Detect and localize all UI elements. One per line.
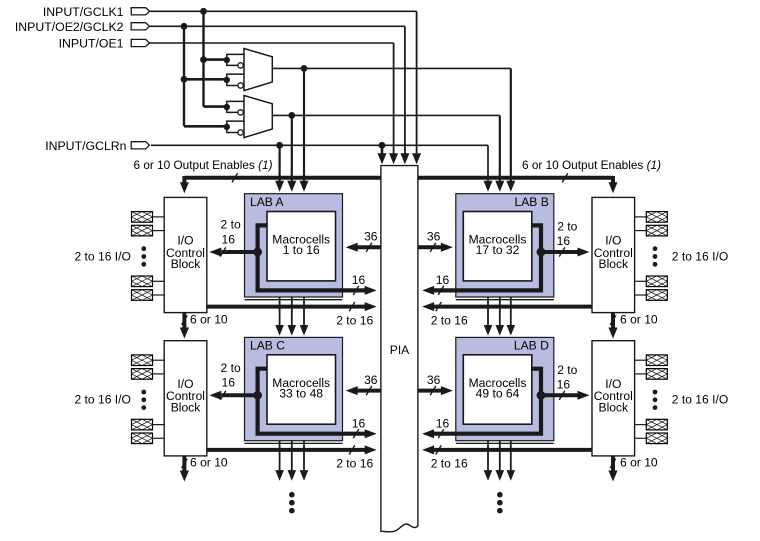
mux M1 input pair 2 bbox=[227, 74, 244, 85]
svg-text:2 to: 2 to bbox=[557, 363, 577, 377]
I/O cell bbox=[646, 355, 667, 366]
wire LAB chain down bbox=[291, 441, 293, 471]
svg-text:LAB D: LAB D bbox=[514, 339, 549, 353]
svg-text:16: 16 bbox=[557, 234, 571, 248]
I/O cell bbox=[132, 212, 153, 223]
I/O cells ellipsis bbox=[653, 390, 658, 395]
node feedback branch bbox=[253, 391, 262, 400]
node GCLRn to PIA bbox=[379, 142, 386, 149]
LAB C bottom edge line bbox=[245, 442, 343, 444]
I/O control block bbox=[592, 197, 635, 312]
wire 2-to-16 to left I/O control block bbox=[222, 393, 258, 397]
I/O cell bbox=[132, 276, 153, 287]
svg-text:INPUT/OE1: INPUT/OE1 bbox=[59, 37, 124, 51]
wire LAB chain down bbox=[487, 297, 489, 326]
svg-text:49 to 64: 49 to 64 bbox=[476, 386, 520, 400]
svg-text:36: 36 bbox=[427, 373, 441, 387]
I/O cell bbox=[646, 419, 667, 430]
wire LAB chain down bbox=[499, 297, 501, 326]
node feedback branch bbox=[537, 391, 546, 400]
thick feedback path LAB D bbox=[432, 369, 541, 434]
svg-text:2 to 16: 2 to 16 bbox=[336, 313, 373, 327]
LAB A bottom edge line bbox=[245, 299, 343, 301]
input pin INPUT/OE2/GCLK2 bbox=[131, 23, 149, 30]
svg-text:36: 36 bbox=[364, 373, 378, 387]
mux M1 input pair 1 bbox=[227, 54, 244, 65]
wire OE2 to muxes bbox=[183, 26, 185, 126]
svg-text:2 to 16 I/O: 2 to 16 I/O bbox=[74, 249, 130, 263]
node feedback branch bbox=[253, 248, 262, 257]
I/O cell bbox=[646, 225, 667, 236]
svg-text:16: 16 bbox=[352, 416, 366, 430]
svg-text:INPUT/GCLK1: INPUT/GCLK1 bbox=[43, 5, 124, 19]
wire mux M1 output bbox=[272, 67, 511, 69]
arrowhead 16 to PIA bbox=[422, 286, 434, 295]
svg-text:INPUT/OE2/GCLK2: INPUT/OE2/GCLK2 bbox=[15, 20, 124, 34]
I/O cell bbox=[132, 369, 153, 380]
thick feedback path LAB A bbox=[258, 225, 367, 290]
svg-text:INPUT/GCLRn: INPUT/GCLRn bbox=[45, 139, 126, 153]
wire LAB chain down bbox=[510, 297, 512, 326]
svg-text:2 to 16 I/O: 2 to 16 I/O bbox=[672, 249, 728, 263]
svg-text:16: 16 bbox=[221, 376, 235, 390]
node mux M2 output to LAB A bbox=[288, 112, 295, 119]
svg-text:Block: Block bbox=[599, 401, 630, 415]
continuation dots left bbox=[289, 492, 295, 498]
slash 16 bbox=[353, 429, 359, 438]
node mux M1 output to LAB A bbox=[301, 65, 308, 72]
wire OE2/GCLK2 to PIA bbox=[149, 25, 405, 27]
mux M1 bbox=[244, 49, 272, 91]
node feedback branch bbox=[537, 248, 546, 257]
svg-text:36: 36 bbox=[364, 230, 378, 244]
wire 6 or 10 bbox=[611, 313, 615, 328]
bus slash right bbox=[562, 173, 568, 182]
input pin INPUT/GCLRn bbox=[131, 142, 149, 149]
svg-text:Block: Block bbox=[171, 401, 202, 415]
wire 2-to-16 to left I/O control block bbox=[222, 250, 258, 254]
thick feedback path LAB C bbox=[258, 369, 367, 434]
mux M2 input pair 1 bbox=[227, 101, 244, 112]
I/O cell bbox=[132, 419, 153, 430]
mux M2 bbox=[244, 96, 272, 138]
wire 2-to-16 right I/O control to PIA bbox=[432, 448, 592, 452]
input pin INPUT/GCLK1 bbox=[131, 8, 149, 15]
svg-text:Block: Block bbox=[599, 257, 630, 271]
node GCLRn to LAB A bbox=[276, 142, 283, 149]
svg-text:6 or 10 Output Enables (1): 6 or 10 Output Enables (1) bbox=[522, 158, 661, 172]
I/O control block bbox=[164, 341, 207, 456]
arrowhead 16 to PIA bbox=[365, 286, 377, 295]
svg-text:6 or 10: 6 or 10 bbox=[190, 456, 228, 470]
svg-text:1 to 16: 1 to 16 bbox=[283, 243, 320, 257]
I/O cell bbox=[132, 290, 153, 301]
wire 36 from PIA to right LAB bbox=[418, 389, 442, 393]
I/O cell bbox=[132, 355, 153, 366]
svg-text:LAB B: LAB B bbox=[515, 195, 549, 209]
wire LAB chain down bbox=[303, 297, 305, 326]
LAB A block bbox=[245, 194, 343, 297]
svg-text:6 or 10: 6 or 10 bbox=[620, 312, 658, 326]
I/O cells ellipsis bbox=[141, 390, 146, 395]
svg-text:16: 16 bbox=[352, 273, 366, 287]
svg-text:2 to 16: 2 to 16 bbox=[336, 457, 373, 471]
continuation dots right bbox=[497, 492, 503, 498]
slash 16 bbox=[438, 429, 444, 438]
wire 2-to-16 left I/O control to PIA bbox=[207, 305, 367, 309]
LAB B bottom edge line bbox=[456, 299, 554, 301]
I/O cell bbox=[646, 290, 667, 301]
macrocells box 1 to 16 bbox=[267, 212, 336, 281]
wire 6 or 10 bbox=[182, 313, 186, 328]
node OE2 branch bbox=[181, 23, 188, 30]
arrowhead 16 to PIA bbox=[422, 429, 434, 438]
svg-text:16: 16 bbox=[221, 232, 235, 246]
LAB D bottom edge line bbox=[456, 442, 554, 444]
LAB B block bbox=[456, 194, 554, 297]
LAB C block bbox=[245, 337, 343, 440]
wire LAB chain down bbox=[279, 297, 281, 326]
node GCLK1 branch bbox=[200, 8, 207, 15]
wire 2-to-16 to right I/O control block bbox=[541, 393, 579, 397]
svg-text:17 to 32: 17 to 32 bbox=[476, 243, 520, 257]
wire 36 from PIA to left LAB bbox=[357, 389, 381, 393]
svg-text:6 or 10 Output Enables (1): 6 or 10 Output Enables (1) bbox=[133, 158, 272, 172]
wire GCLRn bbox=[151, 144, 488, 146]
svg-text:LAB A: LAB A bbox=[250, 195, 285, 209]
input pin INPUT/OE1 bbox=[131, 39, 149, 46]
I/O control block bbox=[592, 341, 635, 456]
wire 36 from PIA to left LAB bbox=[357, 245, 381, 249]
thick feedback path LAB B bbox=[432, 225, 541, 290]
wire OE1 to PIA bbox=[149, 42, 393, 44]
svg-text:PIA: PIA bbox=[390, 343, 410, 357]
svg-text:16: 16 bbox=[557, 377, 571, 391]
I/O cell bbox=[646, 212, 667, 223]
mux M2 input pair 2 bbox=[227, 121, 244, 132]
I/O cells ellipsis bbox=[141, 246, 146, 251]
wire 36 from PIA to right LAB bbox=[418, 245, 442, 249]
svg-text:2 to 16 I/O: 2 to 16 I/O bbox=[74, 393, 130, 407]
LAB D block bbox=[456, 337, 554, 440]
wire LAB chain down bbox=[487, 441, 489, 471]
wire LAB chain down bbox=[303, 441, 305, 471]
wire LAB chain down bbox=[279, 441, 281, 471]
wire GCLK1 to PIA bbox=[149, 10, 416, 12]
I/O cell bbox=[646, 276, 667, 287]
slash 16 bbox=[438, 286, 444, 295]
wire GCLK1 to muxes bbox=[202, 11, 204, 106]
PIA block bbox=[381, 166, 418, 532]
wire 2-to-16 left I/O control to PIA bbox=[207, 448, 367, 452]
svg-text:6 or 10: 6 or 10 bbox=[190, 312, 228, 326]
I/O cells ellipsis bbox=[653, 246, 658, 251]
svg-text:16: 16 bbox=[436, 273, 450, 287]
svg-text:2 to 16 I/O: 2 to 16 I/O bbox=[672, 393, 728, 407]
macrocells box 17 to 32 bbox=[463, 212, 532, 281]
svg-text:2 to: 2 to bbox=[221, 218, 241, 232]
macrocells box 33 to 48 bbox=[267, 355, 336, 424]
arrowhead 16 to PIA bbox=[365, 429, 377, 438]
svg-text:36: 36 bbox=[427, 230, 441, 244]
svg-text:33 to 48: 33 to 48 bbox=[279, 386, 323, 400]
svg-text:6 or 10: 6 or 10 bbox=[620, 456, 658, 470]
wire LAB chain down bbox=[499, 441, 501, 471]
I/O cell bbox=[646, 369, 667, 380]
svg-text:2 to 16: 2 to 16 bbox=[431, 457, 468, 471]
slash 16 bbox=[353, 286, 359, 295]
svg-text:2 to: 2 to bbox=[221, 361, 241, 375]
I/O control block bbox=[164, 197, 207, 312]
wire 2-to-16 right I/O control to PIA bbox=[432, 305, 592, 309]
macrocells box 49 to 64 bbox=[463, 355, 532, 424]
bus slash left bbox=[232, 173, 238, 182]
wire mux M2 output bbox=[272, 114, 500, 116]
I/O cell bbox=[132, 433, 153, 444]
svg-text:16: 16 bbox=[436, 416, 450, 430]
wire 6 or 10 bbox=[611, 456, 615, 471]
svg-text:2 to: 2 to bbox=[557, 220, 577, 234]
svg-text:LAB C: LAB C bbox=[250, 339, 285, 353]
wire output enable bus bbox=[184, 176, 381, 180]
I/O cell bbox=[646, 433, 667, 444]
svg-text:2 to 16: 2 to 16 bbox=[431, 313, 468, 327]
wire LAB chain down bbox=[510, 441, 512, 471]
wire 2-to-16 to right I/O control block bbox=[541, 250, 579, 254]
wire LAB chain down bbox=[291, 297, 293, 326]
I/O cell bbox=[132, 225, 153, 236]
wire 6 or 10 bbox=[182, 456, 186, 471]
svg-text:Block: Block bbox=[171, 257, 202, 271]
